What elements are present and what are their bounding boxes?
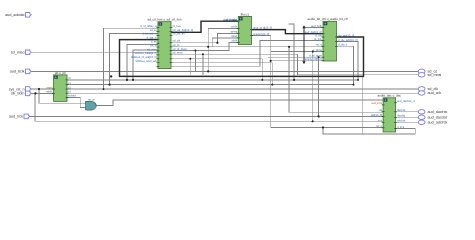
block U2 body [158,22,171,69]
wire U5 out to aud_daclrck [396,111,419,113]
svg-text:d_ad_adr_w: d_ad_adr_w [142,33,157,36]
svg-text:d_en: d_en [151,41,157,44]
svg-text:aud_bclk: aud_bclk [311,25,322,28]
svg-text:rst_or: rst_or [88,99,95,102]
wire clk net down and across to U5 row4 [35,93,383,121]
node loop junction [322,126,324,128]
wire clk riser to U2 pin3 [127,45,158,80]
svg-text:rdclk: rdclk [232,40,238,43]
wire node rst to gate top input [39,89,86,103]
svg-text:sd_miso: sd_miso [11,51,25,55]
svg-text:pll:u_pll: pll:u_pll [55,71,66,75]
svg-text:sd_mosi: sd_mosi [173,52,183,55]
icon U2 [159,22,163,25]
wire riser to U4 row51 [271,52,323,122]
svg-text:adclrck: adclrck [397,120,406,123]
svg-text:sd_val_dat[15..0]: sd_val_dat[15..0] [173,29,194,32]
icon U5 [384,99,388,102]
svg-text:rst_n: rst_n [376,125,382,128]
node branch dots [189,58,191,60]
wire gate output to U5 [96,100,383,105]
svg-text:aud_lrck: aud_lrck [9,115,23,119]
node clk junction [34,92,36,94]
pins U2 left [156,28,159,67]
wire dangling net vertical with arrows [303,28,305,63]
bus fifo q to U4 [252,30,324,34]
wire sd_cs long net P3 to output port [32,70,419,72]
svg-text:q[15..0]: q[15..0] [263,27,272,30]
wire branch v195 [194,51,196,72]
icon U3 [239,17,243,20]
svg-text:SDRout_start_adr: SDRout_start_adr [135,60,157,63]
node bottom junction a [261,79,263,81]
pins U4 left [322,28,325,61]
svg-text:wrclk: wrclk [231,26,238,29]
node rst net junction b [288,46,290,48]
svg-text:d_dat_in: d_dat_in [147,37,158,40]
wire branch v190 [189,59,191,75]
svg-text:aud_daclrck_d: aud_daclrck_d [397,100,415,103]
wire clk_in P4b to U1 refclk [32,92,54,94]
wire into U4 pin row1 [304,27,323,29]
port aud_adclrck [418,120,425,124]
svg-text:d_rd_done: d_rd_done [309,55,322,58]
svg-text:d_lrck: d_lrck [397,126,405,129]
wire riser branch to U2 pin1 [104,28,158,89]
wire U2 out to fifo rdreq and U4 rst [171,46,323,48]
svg-text:c0: c0 [68,77,71,80]
svg-text:aud_bclk: aud_bclk [10,70,25,74]
svg-text:ad_ctl_fsm:u_ad_ctl_fsm: ad_ctl_fsm:u_ad_ctl_fsm [147,18,182,22]
svg-text:aud_daclrck: aud_daclrck [428,110,448,114]
wire U4 out to U5 pin1 [337,42,359,80]
wire U1 locked to gate bottom input [67,97,86,107]
bus U4 dat out around to U2 [120,37,364,76]
node clk0 junction a [126,79,128,81]
wire sys_rst_n P4a to U1 reset [32,88,54,90]
svg-text:aud_adcdat: aud_adcdat [5,13,24,17]
svg-text:dacdat: dacdat [397,115,405,118]
svg-text:sd_mosi: sd_mosi [428,73,442,77]
svg-text:sd_cs: sd_cs [173,44,181,47]
wire U5 loop below to aud_adclrck [323,128,415,135]
svg-text:refclk: refclk [46,91,53,94]
svg-text:d_rd_ddlay_w: d_rd_ddlay_w [140,25,157,28]
port sd_cs [418,69,425,73]
node c2 riser junction [103,88,105,90]
svg-text:sd_val_en: sd_val_en [173,33,186,36]
wire U5 out to aud_adclrck [396,121,419,123]
wire U2 out down right [171,59,262,80]
wire branch down from rst net to U5 row2 [289,47,383,113]
block U5 body [383,98,395,132]
port aud_lrck [24,114,30,119]
pins U1 right [66,80,69,98]
node bus junction [110,75,112,77]
svg-text:SDRout_rd_adr[15..0]: SDRout_rd_adr[15..0] [131,56,157,59]
svg-text:d_dw_adc[15..0]: d_dw_adc[15..0] [338,39,358,42]
port aud_daclrck [418,110,425,114]
svg-text:daclrck: daclrck [397,109,406,112]
svg-text:s_done: s_done [313,49,322,52]
svg-text:q[15..0]: q[15..0] [253,27,262,30]
node clk1 junction [109,84,111,86]
svg-text:rd_bus: rd_bus [173,25,182,28]
wire U1 outclk2 long to sd_clk port [67,88,418,90]
svg-text:aud_dacdat: aud_dacdat [428,116,447,120]
port sys_rst_n [26,87,32,92]
pins U1 left [52,89,55,93]
svg-text:lrck: lrck [378,120,383,123]
icon U1 [54,76,58,79]
port aud_bclk_i [26,69,32,74]
wire clk riser to U2 pin2 [110,34,158,85]
node rst junction [38,88,40,90]
wire net to fifo wrclk [208,28,238,71]
svg-text:d_dw_lr: d_dw_lr [338,44,348,47]
svg-text:clk_50m: clk_50m [11,92,25,96]
icon U4 [324,22,328,25]
wire U1 outclk0 across to U4 riser [67,79,358,81]
svg-text:c1: c1 [68,82,71,85]
node bottom junction b [271,84,273,86]
wire sd_miso P2 to U2 [32,51,158,53]
svg-text:aud_adc: aud_adc [226,18,237,21]
wire U1 outclk1 across [67,84,354,86]
svg-text:fifo:u1: fifo:u1 [241,12,250,16]
wire branch v202 [202,54,204,75]
svg-text:c2: c2 [68,86,71,89]
port clk_50m [26,91,32,96]
svg-text:aud_xck: aud_xck [428,91,442,95]
svg-text:audio_dac:u_dac: audio_dac:u_dac [378,94,402,98]
wire U2 sd_mosi out down to port [171,54,418,75]
wire riser to U2 pin4b [133,50,158,80]
block U4 body [323,21,337,61]
node clk0 junction b [132,79,134,81]
node sd junction [207,70,209,72]
svg-text:wrempty[0..0]: wrempty[0..0] [253,33,269,36]
svg-text:dw_dat[15..0]: dw_dat[15..0] [338,34,354,37]
svg-text:SDRout_base[4..0]: SDRout_base[4..0] [134,52,157,55]
wire thin vertical to loop [361,76,363,134]
svg-text:sd_clk: sd_clk [173,39,181,42]
wire U1 outclk3 long to aud_xck port [67,92,418,94]
node u4 clk junctions [357,79,359,81]
arrow dangling net top [302,25,305,28]
port sd_mosi [418,73,425,77]
svg-text:rdreq: rdreq [231,35,238,38]
svg-text:reset: reset [47,86,53,89]
svg-text:wrreq: wrreq [231,31,238,34]
wire aud_lrck P5 straight to U5 row3 [30,115,384,117]
block U3 body [238,16,251,44]
wire U2 out to fifo wrreq [171,33,238,42]
port aud_adcdat [26,13,32,18]
wire fifo wrempty to U4 empty [252,36,384,128]
pins U3 left [237,21,240,42]
svg-text:sys_rst_n: sys_rst_n [9,87,25,91]
svg-text:sd_wr: sd_wr [150,29,157,32]
port aud_xck [418,91,425,95]
pins U3 right [250,30,253,36]
arrow dangling net bottom [302,61,305,64]
block U1 body [54,75,68,102]
svg-text:c3: c3 [68,91,71,94]
pins U2 right [170,28,173,63]
pins U4 right [335,37,338,46]
node wrempty crossing [270,60,272,62]
svg-text:sd_miso: sd_miso [147,48,158,51]
svg-text:clk_in: clk_in [150,44,157,47]
and-gate G1 [86,101,97,110]
svg-text:aud_bclk: aud_bclk [371,102,382,105]
port sd_clk [418,87,425,91]
wire U2 out to fifo rdclk [171,42,238,50]
wire riser to U4 row57 [268,57,323,116]
bus U2 dat out to fifo data [171,21,238,32]
wire U2 bottom out up to U4 row [171,41,323,67]
svg-text:sd_rd_done: sd_rd_done [173,48,188,51]
wire U4 out to U5 pin3 [337,46,354,84]
svg-text:locked: locked [68,95,76,98]
pins U5 right [394,103,397,129]
svg-text:rd_lrck: rd_lrck [314,38,323,41]
wire U5 out to aud_dacdat [396,116,419,118]
svg-text:rst_n: rst_n [316,44,322,47]
port sd_miso [26,50,32,55]
wire net riser x294 [288,24,294,80]
svg-text:empty_rd[0..0]: empty_rd[0..0] [305,58,322,61]
svg-text:aud_adclrck: aud_adclrck [428,121,448,125]
node clk0 riser junction [293,79,295,81]
pins U5 left [382,105,385,128]
port aud_dacdat [418,115,425,119]
wire U2 out down right 2 [171,63,272,85]
svg-text:dat[15..0]: dat[15..0] [371,114,382,117]
svg-text:audio_bit_ctrl:u_audio_bit_ctl: audio_bit_ctrl:u_audio_bit_ctl [307,17,347,21]
